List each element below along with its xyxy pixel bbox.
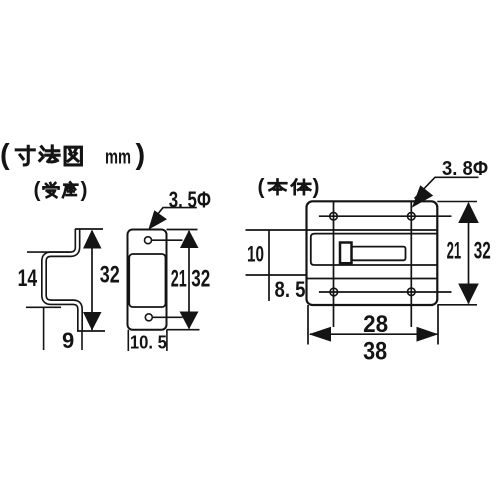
svg-text:mm: mm <box>105 147 131 169</box>
svg-text:32: 32 <box>191 266 210 293</box>
catch bottom edge extension <box>167 329 200 331</box>
dim 14 lower extension <box>26 306 61 308</box>
slide bar <box>352 247 406 261</box>
body outer plate <box>307 201 438 305</box>
catch hole center lines <box>152 240 183 317</box>
svg-text:28: 28 <box>363 311 388 338</box>
svg-text:): ) <box>136 139 146 171</box>
svg-text:32: 32 <box>474 238 491 265</box>
body hole center horizontal lines <box>319 216 452 292</box>
svg-text:): ) <box>81 179 88 202</box>
svg-text:21: 21 <box>447 238 462 265</box>
slide knob <box>340 243 352 264</box>
body hole center vertical lines <box>334 202 412 328</box>
svg-text:10: 10 <box>247 242 264 267</box>
svg-text:(: ( <box>258 176 265 199</box>
catch top edge extension <box>167 229 198 231</box>
dim 32 line (bracket) <box>91 231 93 330</box>
catch plate inner boss <box>129 254 165 307</box>
dim 28/38 line <box>310 333 438 335</box>
dim 21/32 line (body) <box>468 203 470 304</box>
body right extensions <box>437 202 477 305</box>
svg-text:38: 38 <box>363 338 387 366</box>
svg-text:10. 5: 10. 5 <box>130 333 167 353</box>
svg-text:(: ( <box>34 179 41 202</box>
body band lines <box>307 230 438 279</box>
dim 14 upper extension <box>27 251 70 253</box>
dim 9 extension lines <box>44 307 82 350</box>
catch top hole <box>145 237 152 244</box>
svg-text:8. 5: 8. 5 <box>275 277 306 302</box>
body slot <box>311 234 438 265</box>
bracket top extension line <box>75 228 103 230</box>
bracket bottom extension line <box>77 330 105 332</box>
dim 10.5 extensions <box>128 330 167 351</box>
catch plate front view outer <box>128 230 167 330</box>
svg-text:3. 5Φ: 3. 5Φ <box>169 187 211 213</box>
svg-text:14: 14 <box>18 265 38 292</box>
bracket profile (catch plate side view) <box>44 229 80 331</box>
dim 10 extension lines <box>246 230 307 301</box>
svg-text:(: ( <box>0 139 10 171</box>
dim 21/32 line (catch) <box>188 231 190 329</box>
body bottom edge extensions <box>308 305 438 345</box>
svg-text:9: 9 <box>62 328 74 353</box>
svg-text:): ) <box>313 176 320 199</box>
catch bottom hole <box>145 314 152 321</box>
svg-text:21: 21 <box>171 266 187 293</box>
svg-text:32: 32 <box>100 262 120 289</box>
body holes <box>330 212 338 220</box>
